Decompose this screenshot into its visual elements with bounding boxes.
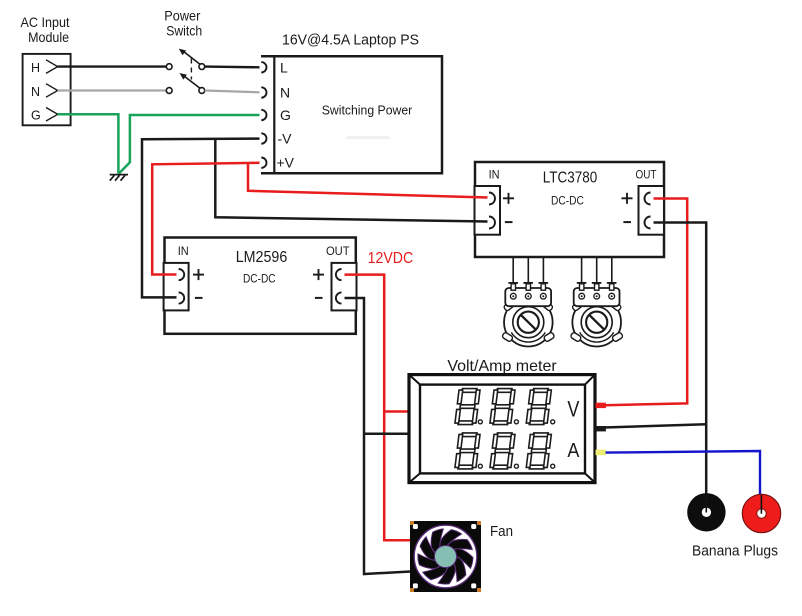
potentiometer VR1 [502,283,555,347]
LM2596 pin OUT+ [336,269,342,280]
svg-text:G: G [280,107,291,123]
wire PS -V to LM2596 IN- [142,139,260,298]
svg-text:N: N [31,85,40,99]
LTC3780 pin IN+ [489,193,495,205]
black branch to meter supply- [364,433,410,436]
wire PS +V to LM2596 IN+ [152,163,259,275]
svg-text:V: V [567,397,579,422]
LTC3780 pin IN- [489,217,495,229]
faint watermark [346,136,390,139]
wire meter common to OUT- net [596,424,706,428]
LTC3780 pin OUT- [645,217,651,229]
banana plug black J2 [687,493,725,531]
svg-text:Switching Power: Switching Power [322,103,413,118]
svg-text:+V: +V [277,155,295,171]
LM2596 pin IN- [179,292,185,303]
AC input module box J1 [23,54,71,125]
meter M1 inner bezel [420,385,585,474]
svg-text:OUT: OUT [326,244,350,258]
LM2596 module U2 box [165,238,356,334]
LTC3780 pin OUT+ [645,193,651,205]
meter terminal com stub [596,426,606,431]
svg-text:DC-DC: DC-DC [551,194,584,208]
Power Switch label [164,7,202,38]
PS1 pin +V [261,158,266,168]
potentiometer wires to LTC3780 [513,257,612,283]
svg-text:IN: IN [489,167,500,181]
meter M1 outer box [409,375,595,483]
fan F1 rotor [414,525,477,588]
svg-text:Module: Module [28,29,69,45]
wire LTC3780 OUT- to black banana plug [654,223,707,495]
meter amp decimal points [478,464,482,468]
PS1 pin G [261,110,266,120]
wire LM2596 OUT- black to fan [345,298,411,574]
svg-text:12VDC: 12VDC [368,250,414,267]
wire +V branch to LTC3780 IN+ [248,164,488,198]
LM2596 IN tab [164,263,189,311]
svg-text:DC-DC: DC-DC [243,271,276,285]
wire LTC3780 OUT+ to meter V+ [606,199,688,406]
red branch to meter V+ [384,410,410,413]
wire -V tee to LTC3780 IN- [215,139,487,222]
svg-text:Switch: Switch [166,22,202,38]
svg-text:16V@4.5A Laptop PS: 16V@4.5A Laptop PS [282,32,419,49]
wire N neutral from module to switch [58,89,167,91]
svg-text:LM2596: LM2596 [236,249,288,266]
PS1 pin -V [261,133,266,143]
svg-text:L: L [280,59,288,75]
svg-text:N: N [280,85,290,101]
PS1 pin N [261,87,266,97]
potentiometer VR2 [570,283,623,347]
LTC3780 IN tab [475,186,501,235]
switch mechanical link dashed [190,59,192,80]
meter volt decimal points [478,420,482,424]
svg-text:H: H [31,61,40,75]
LM2596 OUT tab [332,263,357,311]
LM2596 pin OUT- [336,292,342,303]
svg-text:Banana Plugs: Banana Plugs [692,543,778,560]
svg-text:Fan: Fan [490,524,513,540]
svg-text:Power: Power [164,7,200,23]
wire LM2596 OUT+ 12V red to fan [345,275,411,541]
fan F1 body [410,521,481,592]
meter terminal V+ stub [596,403,606,408]
wire H hot from module to switch [58,65,167,67]
LM2596 pin IN+ [179,269,185,280]
switch S1 pole 1 [166,49,204,70]
laptop power supply PS1 box [261,56,442,173]
svg-text:-V: -V [278,131,293,147]
svg-text:LTC3780: LTC3780 [543,170,598,187]
PS1 pin L [261,62,266,72]
meter volt digits [455,389,480,425]
wire G ground from module to ground tap [58,114,119,173]
meter terminal A shunt stub [596,450,606,456]
svg-text:AC Input: AC Input [21,14,70,30]
AC Input Module label [21,14,70,45]
wire G ground riser to PS pin G [119,115,260,174]
LTC3780 OUT tab [639,186,665,235]
svg-text:A: A [567,440,580,462]
svg-text:Volt/Amp meter: Volt/Amp meter [447,358,557,375]
banana plug red J3 [742,494,780,532]
wire switch pole1 to PS pin L [205,65,260,68]
switch S1 pole 2 [166,73,204,93]
wire meter A shunt blue to red banana plug [606,451,761,495]
svg-text:IN: IN [178,244,189,258]
chassis ground [110,175,128,181]
meter amp digits [455,433,480,469]
wire switch pole2 to PS pin N [205,91,260,93]
LTC3780 module U1 box [475,162,664,257]
svg-text:G: G [31,109,41,123]
svg-text:OUT: OUT [636,167,658,181]
